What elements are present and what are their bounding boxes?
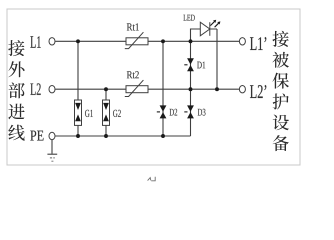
wire D1 D3 branch L1 to PE bbox=[190, 41, 192, 136]
label LED bbox=[183, 15, 194, 21]
junction L1-G1 branch bbox=[76, 39, 80, 43]
TVS diode D3 bbox=[184, 105, 194, 118]
thermistor Rt1 bbox=[125, 32, 148, 48]
junction PE-D2 branch bbox=[161, 134, 165, 138]
label Rt2 bbox=[127, 71, 139, 78]
TVS diode D2 bbox=[157, 105, 167, 118]
right text char 保 bbox=[272, 73, 288, 89]
wire L1 line bbox=[55, 40, 239, 42]
right text char 被 bbox=[272, 52, 288, 68]
terminal PE bbox=[49, 132, 55, 139]
label D2 bbox=[170, 109, 178, 116]
terminal L2prime bbox=[239, 86, 245, 93]
wire L2 line bbox=[55, 88, 239, 90]
left text char 部 bbox=[9, 82, 25, 98]
right text char 设 bbox=[273, 114, 289, 130]
left text char 线 bbox=[8, 125, 24, 141]
terminal L2 bbox=[49, 86, 55, 93]
terminal L1 bbox=[49, 38, 55, 45]
label G2 bbox=[113, 110, 121, 117]
gas discharge tube G2 bbox=[103, 100, 110, 125]
wire D2 branch L1 to PE bbox=[162, 41, 164, 136]
label D3 bbox=[198, 109, 206, 116]
thermistor Rt2 bbox=[125, 80, 148, 96]
junction L1-D2 branch bbox=[161, 39, 165, 43]
junction PE-G2 branch bbox=[104, 134, 108, 138]
wire LED branch bbox=[191, 29, 218, 89]
left text char 进 bbox=[8, 104, 24, 120]
LED indicator diode bbox=[200, 20, 220, 36]
label L1 bbox=[30, 36, 40, 47]
label Rt1 bbox=[127, 23, 139, 30]
wire PE line bbox=[55, 135, 190, 137]
junction L2-LED return bbox=[215, 87, 219, 91]
wire G1 branch L1 to PE bbox=[77, 41, 79, 136]
wire G2 branch L2 to PE bbox=[105, 89, 107, 136]
left text char 外 bbox=[8, 61, 24, 77]
gas discharge tube G1 bbox=[75, 100, 82, 125]
label G1 bbox=[85, 110, 93, 117]
label PE bbox=[30, 131, 43, 141]
label L2prime bbox=[250, 85, 266, 98]
left text char 接 bbox=[8, 40, 24, 56]
small mark bottom center bbox=[148, 177, 156, 181]
junction L2-D1/D3 branch bbox=[189, 87, 193, 91]
junction L1-D1/LED branch bbox=[189, 39, 193, 43]
right text char 接 bbox=[272, 31, 288, 47]
label L2 bbox=[30, 83, 40, 95]
junction PE-G1 branch bbox=[76, 134, 80, 138]
label L1prime bbox=[250, 37, 266, 50]
wire PE ground lead bbox=[51, 139, 53, 154]
right text char 护 bbox=[273, 93, 289, 109]
TVS diode D1 bbox=[184, 58, 194, 71]
terminal L1prime bbox=[239, 38, 245, 45]
junction L2-G2 branch bbox=[104, 87, 108, 91]
label D1 bbox=[197, 62, 205, 69]
ground symbol bbox=[47, 154, 57, 161]
right text char 备 bbox=[273, 135, 289, 151]
